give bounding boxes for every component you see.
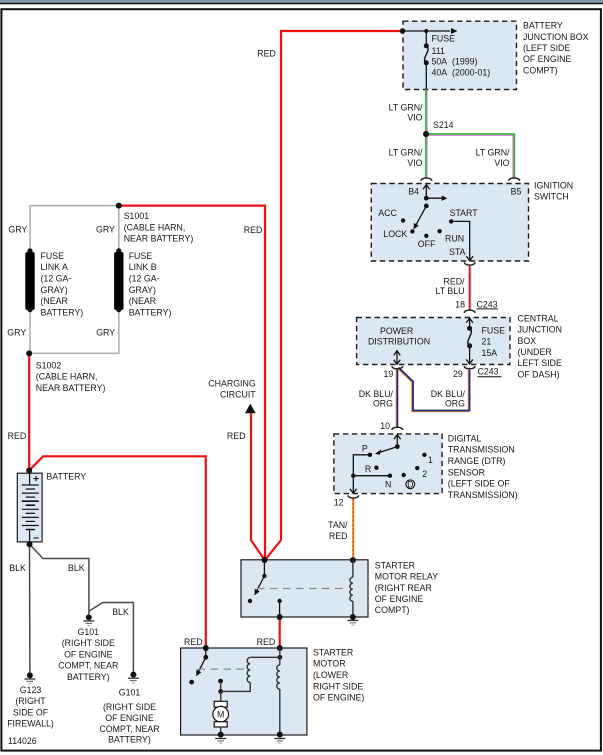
svg-text:BATTERY): BATTERY) [108,735,151,745]
svg-text:G101: G101 [78,627,100,637]
svg-text:JUNCTION BOX: JUNCTION BOX [523,32,589,42]
pin label 18 [455,299,465,309]
svg-text:RIGHT SIDE: RIGHT SIDE [313,681,363,691]
svg-text:LT GRN/: LT GRN/ [389,102,423,112]
svg-text:RUN: RUN [445,233,464,243]
wire label RED at battery [8,431,27,441]
node starter motor left input [203,645,209,651]
wire LT GRN/VIO from fuse 111 to splice S214 and B4 [426,90,427,178]
svg-text:START: START [450,208,479,218]
ignition switch box [371,184,528,262]
wire label LT GRN/VIO upper [389,102,423,122]
central junction box label [518,313,562,379]
wire label BLK left [9,563,26,573]
splice S1002 label [36,360,106,393]
svg-text:21: 21 [482,337,492,347]
wire DK BLU/ORG from pin 19 to DTR pin 10 [396,370,397,428]
svg-text:COMPT, NEAR: COMPT, NEAR [99,724,159,734]
svg-text:BOX: BOX [518,336,537,346]
switch position RUN [445,233,464,243]
starter motor solenoid switch [189,648,208,684]
svg-text:FIREWALL): FIREWALL) [7,719,54,729]
wire label GRY upper right [96,225,115,235]
svg-text:(RIGHT: (RIGHT [15,696,46,706]
svg-text:SWITCH: SWITCH [534,192,569,202]
fuse link B label [129,251,172,318]
pin label 19 [384,369,394,379]
svg-text:OFF: OFF [418,239,436,249]
svg-text:NEAR BATTERY): NEAR BATTERY) [36,383,106,393]
svg-text:15A: 15A [482,348,498,358]
wire label RED starter left [184,637,203,647]
ignition switch contact START and STA output [449,219,473,261]
battery label [46,472,86,482]
DTR position R [365,464,371,474]
svg-text:STA: STA [449,247,466,257]
fuse 111 50A [424,31,429,90]
starter motor relay box [241,560,368,617]
diagram number 114026 [8,736,37,746]
connector pin B4 [421,178,432,181]
fuse 111 value label [432,34,491,78]
central junction box pin 18 entry arrow [466,318,473,328]
svg-text:IGNITION: IGNITION [534,180,573,190]
fuse link B [114,248,123,312]
wire RED charging circuit branch [251,413,264,559]
svg-text:RANGE (DTR): RANGE (DTR) [448,456,506,466]
splice S1001 [116,203,122,209]
wire RED from splice S1001 to starter motor relay [119,206,265,560]
fuse 21 value label [482,325,506,357]
battery negative node [27,541,33,547]
splice S214 label [433,120,454,130]
svg-text:LINK A: LINK A [41,262,69,272]
svg-text:TAN/: TAN/ [328,520,348,530]
connector pin STA exit [464,262,475,265]
wire RED from relay output to starter motor [279,617,281,648]
DTR sensor contact 2 [415,466,419,470]
pin label 12 [334,497,344,507]
DTR sensor pin 10 entry arrow [394,435,401,447]
svg-text:P: P [362,443,368,453]
svg-text:FUSE: FUSE [482,325,506,335]
svg-text:S1002: S1002 [36,360,62,370]
svg-text:40A (2000-01): 40A (2000-01) [432,68,491,78]
connector pin 29 [464,366,475,369]
wire BLK from battery negative to ground G123 [29,544,31,673]
node at battery junction box feed [400,28,406,34]
svg-text:(LEFT SIDE: (LEFT SIDE [523,43,570,53]
svg-text:BLK: BLK [112,607,129,617]
connector label C243 upper [477,299,499,309]
svg-text:(NEAR: (NEAR [41,296,68,306]
svg-text:(CABLE HARN,: (CABLE HARN, [36,372,98,382]
switch output STA [449,247,466,257]
svg-text:JUNCTION: JUNCTION [518,325,562,335]
ground at motor armature [215,732,226,744]
wire label GRY upper left [8,225,27,235]
wire GRY from fuse link A top to splice S1001 [30,206,119,251]
node at relay input [262,557,268,563]
svg-text:(CABLE HARN,: (CABLE HARN, [124,222,186,232]
DTR sensor selector lever [375,444,400,455]
ground at starter hold coil [274,732,285,744]
svg-text:RED: RED [184,637,203,647]
starter motor relay coil [350,557,356,617]
fuse link A [25,248,34,312]
ignition switch contact RUN [437,229,441,233]
ground G123 [24,672,35,683]
svg-text:111: 111 [432,46,445,56]
svg-text:LINK B: LINK B [129,262,157,272]
switch position OFF [418,239,436,249]
starter motor contact to motor [218,679,223,694]
switch position ACC [378,208,397,218]
ignition switch B4 entry arrow [423,185,430,199]
splice S1001 label [124,211,194,244]
svg-text:C243: C243 [478,367,499,377]
svg-text:(12 GA-: (12 GA- [129,274,160,284]
svg-text:TRANSMISSION: TRANSMISSION [448,445,515,455]
svg-text:S214: S214 [433,120,454,130]
svg-text:B4: B4 [408,186,419,196]
ground G101 first [83,614,94,625]
wire label RED top [257,49,276,59]
svg-text:FUSE: FUSE [41,251,65,261]
svg-text:ORG: ORG [445,399,465,409]
starter motor box [181,648,307,735]
node starter motor right input [277,645,283,651]
wire GRY from fuse link B bottom to splice S1002 [29,310,119,354]
svg-text:(UNDER: (UNDER [518,347,552,357]
svg-text:NEAR BATTERY): NEAR BATTERY) [124,234,194,244]
ignition switch contact ACC [401,218,405,222]
svg-text:STARTER: STARTER [375,560,415,570]
power distribution label [368,326,430,347]
wire label LT GRN/VIO left [389,147,423,167]
starter motor label [313,647,364,702]
ignition switch contact OFF [424,234,428,238]
battery box [17,473,42,542]
wire RED from battery junction box to starter motor relay [266,31,403,559]
ignition switch rotary lever [414,204,429,230]
svg-text:OF ENGINE: OF ENGINE [523,54,572,64]
battery junction box label [523,21,589,76]
DTR position P [362,443,368,453]
svg-text:RED: RED [8,431,27,441]
svg-text:S1001: S1001 [124,211,150,221]
svg-text:SIDE OF: SIDE OF [13,707,49,717]
svg-text:RED: RED [244,225,263,235]
power distribution arrow [394,351,401,365]
charging circuit label [208,379,256,400]
svg-text:LT BLU: LT BLU [435,286,464,296]
svg-text:ORG: ORG [373,399,393,409]
svg-text:OF ENGINE: OF ENGINE [375,594,424,604]
connector pin B5 [509,178,520,181]
DTR sensor D position circle [406,479,415,489]
svg-text:GRAY): GRAY) [129,285,156,295]
digital transmission range sensor box [334,434,442,494]
DTR position 1 [428,455,433,465]
svg-text:50A (1999): 50A (1999) [432,57,478,67]
wire DK BLU/ORG from pin 29 joining pin 19 node [398,368,470,412]
DTR sensor contact D dot [402,473,406,477]
svg-text:OF DASH): OF DASH) [518,369,560,379]
svg-text:BATTERY): BATTERY) [41,307,84,317]
svg-text:GRY: GRY [96,225,115,235]
svg-text:RED: RED [329,531,348,541]
svg-text:19: 19 [384,369,394,379]
svg-text:MOTOR: MOTOR [313,659,346,669]
svg-text:G123: G123 [20,685,42,695]
ground at relay coil [347,614,358,625]
svg-text:CHARGING: CHARGING [208,379,256,389]
svg-text:BLK: BLK [9,563,26,573]
connector label C243 lower [478,367,502,377]
svg-text:COMPT): COMPT) [523,65,558,75]
starter motor relay label [375,560,438,615]
wire GRY from splice S1001 to fuse link B top [118,206,120,251]
pin label 29 [453,369,463,379]
wire inside battery junction box with arrow to other circuits [403,28,458,34]
svg-text:TRANSMISSION): TRANSMISSION) [448,490,518,500]
pin label B5 [511,187,522,197]
svg-text:OF ENGINE): OF ENGINE) [313,693,364,703]
svg-text:(LOWER: (LOWER [313,670,348,680]
svg-text:SENSOR: SENSOR [448,467,485,477]
wire label DK BLU/ORG right [431,389,466,409]
svg-text:CIRCUIT: CIRCUIT [220,390,256,400]
svg-text:RED: RED [257,49,276,59]
ignition switch contact LOCK [410,229,414,233]
svg-text:LT GRN/: LT GRN/ [476,147,510,157]
svg-text:BLK: BLK [68,563,85,573]
ignition switch label [534,180,573,201]
battery junction box [403,21,517,89]
wire label GRY lower right [96,327,115,337]
wire RED/LT BLU from STA to central junction box pin 18 [470,266,471,309]
svg-text:LEFT SIDE: LEFT SIDE [518,358,562,368]
svg-text:18: 18 [455,299,465,309]
splice S1002 [26,350,32,356]
svg-text:DK BLU/: DK BLU/ [359,389,394,399]
motor M armature [213,691,229,733]
svg-text:DISTRIBUTION: DISTRIBUTION [368,336,430,346]
svg-text:DK BLU/: DK BLU/ [431,389,466,399]
wire label GRY lower left [7,327,26,337]
wire label RED charging [227,431,246,441]
wire BLK branch to second ground G101 [89,603,133,673]
svg-text:VIO: VIO [407,158,422,168]
svg-text:(RIGHT REAR: (RIGHT REAR [375,583,432,593]
starter motor relay switch [248,560,283,620]
svg-text:MOTOR RELAY: MOTOR RELAY [375,572,438,582]
starter mechanical dashed link [198,668,246,670]
wire label DK BLU/ORG left [359,389,394,409]
wire label RED upper middle [244,225,263,235]
svg-text:(12 GA-: (12 GA- [41,274,72,284]
connector pin 12 [348,495,359,498]
relay mechanical dashed link [257,588,347,590]
pin label B4 [408,186,419,196]
svg-text:OF ENGINE: OF ENGINE [105,713,154,723]
svg-text:(RIGHT SIDE: (RIGHT SIDE [62,638,115,648]
svg-text:FUSE: FUSE [432,34,456,44]
svg-text:GRAY): GRAY) [41,285,68,295]
wire label LT GRN/VIO right [476,147,510,167]
svg-text:(LEFT SIDE OF: (LEFT SIDE OF [448,479,511,489]
svg-text:CENTRAL: CENTRAL [518,313,559,323]
svg-text:(NEAR: (NEAR [129,296,156,306]
wire LT GRN/VIO from splice S214 to B5 [426,134,514,178]
central junction box [357,318,510,365]
svg-text:POWER: POWER [380,326,413,336]
DTR sensor contact P wiring to pin 12 [350,453,392,494]
ground G101 first label [58,627,118,682]
svg-text:RED: RED [227,431,246,441]
svg-text:2: 2 [422,469,427,479]
fuse link A label [41,251,84,318]
ground G101 second label [99,687,159,744]
svg-text:N: N [385,479,391,489]
svg-text:BATTERY): BATTERY) [67,672,110,682]
svg-text:GRY: GRY [8,225,27,235]
wire GRY from fuse link A bottom to splice S1002 [29,310,31,354]
charging circuit arrow [245,404,256,414]
ground G101 second [128,672,139,683]
svg-text:OF ENGINE: OF ENGINE [64,649,113,659]
wire label BLK right [112,607,129,617]
svg-text:12: 12 [334,497,344,507]
svg-text:COMPT): COMPT) [375,605,410,615]
svg-text:114026: 114026 [8,736,37,746]
splice S214 [423,131,429,137]
switch position LOCK [383,229,407,239]
svg-text:STARTER: STARTER [313,647,353,657]
svg-text:ACC: ACC [378,208,397,218]
svg-text:29: 29 [453,369,463,379]
svg-text:GRY: GRY [7,327,26,337]
battery positive node [26,468,32,474]
svg-text:VIO: VIO [494,158,509,168]
svg-text:10: 10 [380,421,390,431]
wire BLK from battery negative to ground G101 [30,544,89,615]
wire label TAN/RED [328,520,348,541]
svg-text:RED: RED [257,637,276,647]
svg-text:G101: G101 [119,687,141,697]
svg-text:1: 1 [428,455,433,465]
svg-text:COMPT, NEAR: COMPT, NEAR [58,661,118,671]
connector pin 18 [464,310,475,313]
svg-text:GRY: GRY [96,327,115,337]
DTR sensor contact R [374,466,378,470]
DTR sensor label [448,433,518,500]
wire TAN/RED from DTR pin 12 to relay coil [352,499,354,560]
svg-text:BATTERY): BATTERY) [129,307,172,317]
fuse 21 15A [466,326,473,364]
svg-text:LT GRN/: LT GRN/ [389,147,423,157]
svg-text:BATTERY: BATTERY [523,21,563,31]
svg-text:R: R [365,464,371,474]
svg-text:C243: C243 [477,299,498,309]
svg-text:M: M [217,710,224,720]
wire label RED/LT BLU [435,276,465,295]
svg-text:(RIGHT SIDE: (RIGHT SIDE [103,702,156,712]
wire label RED starter right [257,637,276,647]
wire RED from splice S1002 to battery positive [28,355,30,471]
wire RED from battery positive to starter motor [29,456,206,648]
svg-text:FUSE: FUSE [129,251,153,261]
battery cell plates [22,473,39,543]
svg-text:DIGITAL: DIGITAL [448,433,482,443]
ignition switch arrow to other circuits [424,196,448,201]
starter motor pull-in coil [221,655,282,692]
svg-text:B5: B5 [511,187,522,197]
connector pin 10 [392,427,403,430]
connector pin 19 [392,366,403,369]
starter motor hold coil [277,648,280,733]
svg-text:LOCK: LOCK [383,229,407,239]
svg-text:BATTERY: BATTERY [46,472,86,482]
svg-text:VIO: VIO [407,112,422,122]
pin label 10 [380,421,390,431]
DTR sensor contact 1 [422,453,426,457]
svg-text:D: D [407,479,413,489]
DTR position 2 [422,469,427,479]
ground G123 label [7,685,54,729]
switch position START [450,208,479,218]
DTR position N [385,479,391,489]
wire label BLK middle [68,563,85,573]
